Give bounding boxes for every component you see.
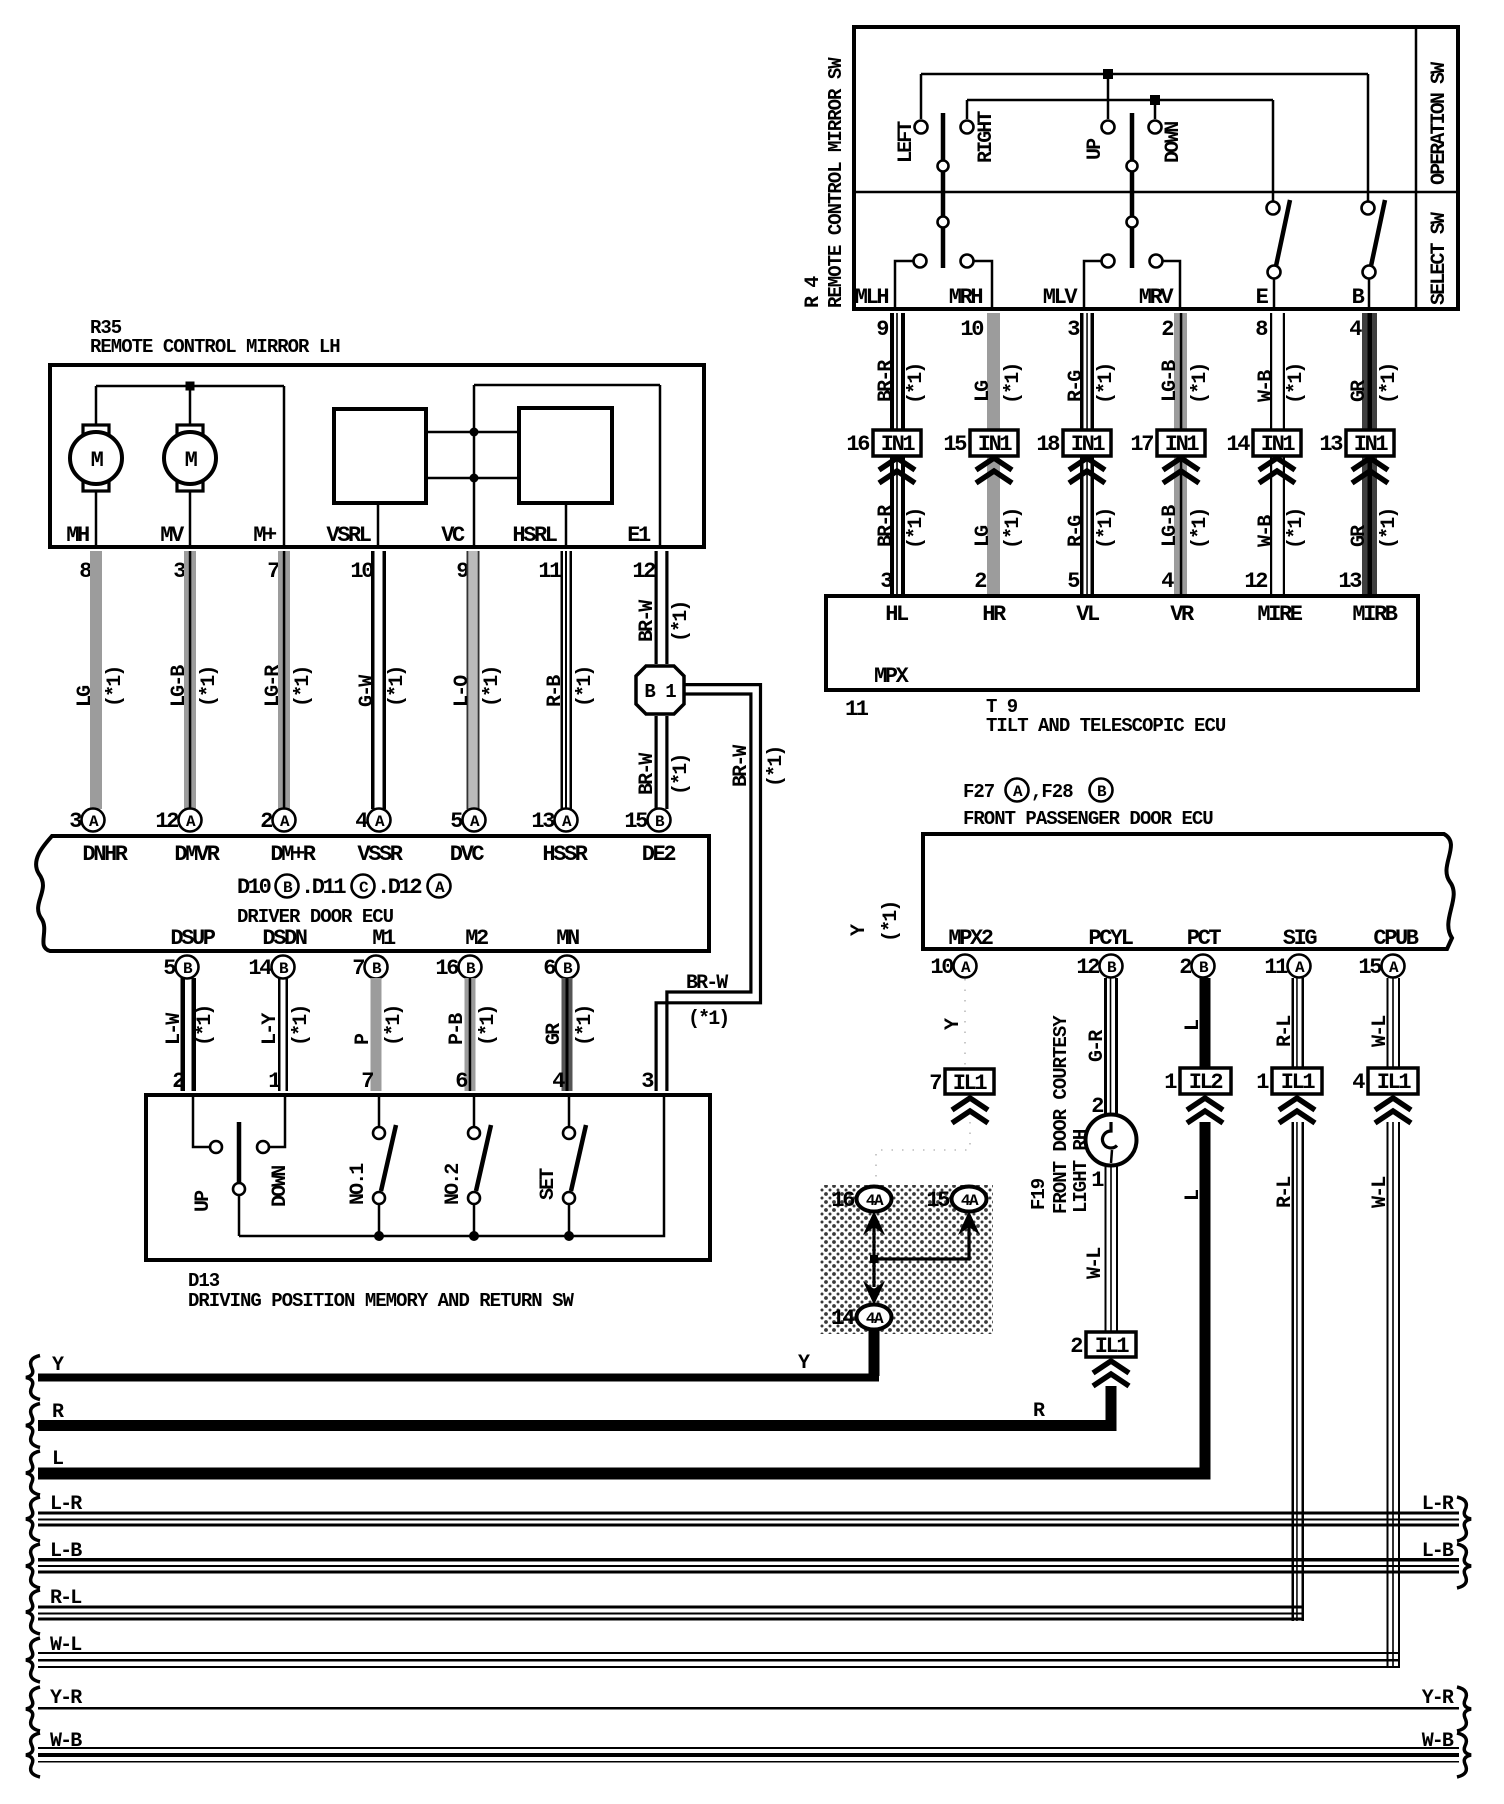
- svg-text:MRH: MRH: [949, 285, 983, 310]
- wire Y IL1 to 16(4A) (faint): [876, 1122, 970, 1184]
- svg-text:LEFT: LEFT: [895, 121, 918, 163]
- wire motor MV drop: [189, 386, 192, 426]
- svg-text:DOWN: DOWN: [1162, 122, 1185, 163]
- svg-text:14: 14: [831, 1306, 855, 1331]
- svg-text:(*1): (*1): [1095, 364, 1118, 404]
- contact MRH: [961, 255, 974, 268]
- svg-text:W-L: W-L: [1369, 1177, 1392, 1208]
- svg-text:GR: GR: [1348, 525, 1371, 547]
- remote control mirror switch R4 box: [854, 27, 1458, 309]
- wire bus line1: [921, 73, 1368, 76]
- bus L: [26, 1451, 40, 1495]
- svg-text:SELECT SW: SELECT SW: [1428, 212, 1451, 305]
- wire VC riser: [473, 385, 476, 478]
- svg-text:MIRB: MIRB: [1352, 602, 1397, 627]
- svg-text:HSSR: HSSR: [542, 842, 588, 867]
- svg-text:MPX: MPX: [874, 664, 910, 689]
- svg-text:R-L: R-L: [1274, 1177, 1297, 1208]
- tilt and telescopic ECU T9 box: [826, 596, 1418, 690]
- wire VC drop: [473, 478, 476, 545]
- svg-text:4A: 4A: [866, 1192, 884, 1210]
- motor M vertical: [177, 425, 203, 435]
- svg-text:(*1): (*1): [1189, 509, 1212, 549]
- wire DOWN stub: [1154, 100, 1157, 119]
- svg-text:NO.2: NO.2: [442, 1164, 465, 1205]
- wire common bus: [239, 1095, 664, 1236]
- svg-text:W-B: W-B: [1255, 370, 1278, 402]
- wire sensor link lower: [428, 477, 517, 480]
- connector 15(B) DE2: [648, 809, 671, 832]
- wire R-G MLV pin3 to IN1 to MPX VL: [1080, 313, 1084, 594]
- svg-text:LG-R: LG-R: [262, 665, 285, 707]
- svg-text:(*1): (*1): [1285, 364, 1308, 404]
- connector 5(A) DVC: [463, 809, 486, 832]
- svg-text:R-L: R-L: [1274, 1016, 1297, 1047]
- wire GR B pin4 to IN1 to MPX MIRB: [1362, 313, 1377, 594]
- switch arm horizontal mirror select: [941, 113, 946, 268]
- svg-text:LG: LG: [972, 380, 995, 402]
- arrow into 14(4A): [863, 1281, 885, 1305]
- node junction line2/DOWN: [1150, 95, 1160, 105]
- bus R: [26, 1404, 40, 1448]
- svg-text:(*1): (*1): [1189, 364, 1212, 404]
- switch E lower contact: [1268, 266, 1281, 279]
- svg-text:HL: HL: [885, 602, 909, 627]
- svg-text:LG: LG: [74, 685, 97, 707]
- svg-text:(*1): (*1): [1378, 364, 1401, 404]
- switch B upper contact: [1362, 202, 1375, 215]
- svg-text:D10: D10: [237, 875, 271, 900]
- svg-text:(*1): (*1): [290, 1006, 313, 1046]
- svg-text:MH: MH: [66, 523, 89, 548]
- svg-text:2: 2: [1070, 1334, 1082, 1359]
- svg-text:.D12: .D12: [377, 875, 421, 900]
- svg-text:(*1): (*1): [688, 1008, 728, 1031]
- svg-text:IL2: IL2: [1189, 1070, 1223, 1095]
- svg-text:E1: E1: [627, 523, 651, 548]
- svg-text:(*1): (*1): [477, 1006, 500, 1046]
- connector 12(B) PCYL: [1100, 955, 1123, 978]
- wire R riser to IL1: [1106, 1386, 1117, 1431]
- wire G-W VSRL pin10 to ECU VSSR: [371, 551, 375, 809]
- wire BR-W E1 pin12 to B1: [655, 551, 658, 664]
- svg-text:4A: 4A: [961, 1192, 979, 1210]
- svg-text:IL1: IL1: [1377, 1070, 1412, 1095]
- wire R-L IL1 to R-L bus: [1292, 1122, 1295, 1621]
- svg-text:M1: M1: [372, 926, 396, 951]
- wire 16(4A) to junction: [872, 1222, 875, 1260]
- connector 5(B) DSUP: [176, 956, 199, 979]
- svg-text:W-L: W-L: [1369, 1016, 1392, 1047]
- switch SET: [568, 1095, 571, 1127]
- svg-text:OPERATION SW: OPERATION SW: [1428, 62, 1451, 185]
- connector 15(A) CPUB: [1382, 955, 1405, 978]
- wire MLH stub: [895, 261, 913, 309]
- svg-text:(*1): (*1): [1285, 509, 1308, 549]
- svg-text:W-B: W-B: [1422, 1730, 1454, 1753]
- svg-text:L-Y: L-Y: [259, 1013, 282, 1045]
- svg-text:DVC: DVC: [450, 842, 485, 867]
- svg-text:VL: VL: [1076, 602, 1100, 627]
- svg-text:BR-R: BR-R: [875, 360, 898, 402]
- node junction VC lower: [470, 474, 479, 483]
- svg-text:16: 16: [831, 1188, 854, 1213]
- connector IN1 pin15: [970, 430, 1018, 456]
- svg-text:(*1): (*1): [905, 364, 928, 404]
- wire B stub: [1368, 278, 1371, 309]
- svg-text:14: 14: [1226, 432, 1250, 457]
- svg-text:(*1): (*1): [1378, 509, 1401, 549]
- wire motor supply top: [96, 385, 284, 388]
- svg-text:(*1): (*1): [292, 667, 315, 707]
- svg-text:PCT: PCT: [1187, 926, 1222, 951]
- svg-text:MPX2: MPX2: [948, 926, 992, 951]
- svg-text:IL1: IL1: [953, 1071, 988, 1096]
- wire E riser: [1272, 100, 1275, 201]
- svg-text:BR-W: BR-W: [636, 753, 659, 795]
- svg-text:UP: UP: [1084, 138, 1107, 160]
- svg-text:DOWN: DOWN: [269, 1166, 292, 1207]
- wire sensor link upper: [428, 431, 517, 434]
- svg-text:(*1): (*1): [1002, 509, 1025, 549]
- svg-text:GR: GR: [543, 1023, 566, 1045]
- connector 12(A) DMVR: [179, 809, 202, 832]
- node junction line1/UP: [1103, 69, 1113, 79]
- wire R-L SIG to IL1: [1292, 978, 1295, 1068]
- wire LEFT stub: [920, 74, 923, 119]
- svg-text:L: L: [1182, 1190, 1205, 1201]
- svg-text:HSRL: HSRL: [512, 523, 557, 548]
- svg-text:IN1: IN1: [978, 432, 1013, 457]
- bus Y: [26, 1356, 40, 1400]
- wire UP stub: [1107, 74, 1110, 119]
- wire W-L IL1 to W-L bus: [1387, 1122, 1389, 1668]
- connector 4(A) VSSR: [368, 809, 391, 832]
- svg-text:,F28: ,F28: [1031, 781, 1073, 803]
- svg-text:UP: UP: [192, 1190, 215, 1212]
- wire MRV stub: [1163, 261, 1180, 309]
- contact UP: [1102, 121, 1115, 134]
- wire HSRL drop: [565, 505, 568, 545]
- wire MLV stub: [1084, 261, 1101, 309]
- connector oval 16(4A): [857, 1187, 892, 1212]
- svg-text:(*1): (*1): [880, 902, 903, 942]
- svg-text:LG-B: LG-B: [1159, 360, 1182, 402]
- contact DOWN fixed: [257, 1141, 269, 1153]
- wire motor MH drop: [95, 386, 98, 426]
- R4 column divider: [1415, 27, 1418, 309]
- svg-text:(*1): (*1): [198, 667, 221, 707]
- switch E upper contact: [1267, 202, 1280, 215]
- svg-text:IN1: IN1: [881, 432, 916, 457]
- svg-text:7: 7: [267, 559, 279, 584]
- wire W-L courtesy light to IL1: [1105, 1166, 1107, 1332]
- svg-text:12: 12: [1076, 955, 1099, 980]
- wire L PCT to IL2: [1200, 978, 1211, 1068]
- connector IN1 pin14: [1253, 430, 1301, 456]
- switch NO.2: [473, 1095, 476, 1127]
- svg-text:(*1): (*1): [386, 667, 409, 707]
- wire BR-W B1 jog to D13 pin3 inner: [667, 694, 751, 1091]
- contact RIGHT: [961, 121, 974, 134]
- svg-text:(*1): (*1): [104, 667, 127, 707]
- driving position memory and return switch D13 box: [146, 1095, 710, 1260]
- svg-text:11: 11: [845, 697, 869, 722]
- svg-text:MRV: MRV: [1139, 285, 1175, 310]
- svg-text:BR-W: BR-W: [686, 972, 728, 995]
- svg-text:12: 12: [155, 809, 178, 834]
- svg-text:D13: D13: [188, 1270, 220, 1292]
- connector 7(B) M1: [365, 956, 388, 979]
- svg-text:10: 10: [960, 317, 983, 342]
- connector IL1 pin1: [1272, 1068, 1322, 1094]
- connector IN1 pin18: [1063, 430, 1111, 456]
- bus Y-R: [26, 1687, 40, 1731]
- wire MV drop to box bottom: [189, 491, 192, 545]
- node junction VC upper: [470, 428, 479, 437]
- svg-text:(*1): (*1): [383, 1006, 406, 1046]
- svg-text:6: 6: [543, 956, 555, 981]
- svg-text:LG: LG: [972, 525, 995, 547]
- svg-text:Y-R: Y-R: [50, 1687, 82, 1710]
- wire junction to 14(4A): [872, 1259, 875, 1287]
- svg-text:2: 2: [1161, 317, 1173, 342]
- svg-text:18: 18: [1036, 432, 1060, 457]
- svg-text:L-R: L-R: [1422, 1493, 1454, 1516]
- svg-text:DE2: DE2: [642, 842, 676, 867]
- wire W-L CPUB to IL1: [1387, 978, 1389, 1068]
- svg-text:CPUB: CPUB: [1373, 926, 1418, 951]
- contact LEFT: [915, 121, 928, 134]
- svg-text:W-L: W-L: [1084, 1248, 1107, 1279]
- wire bus line2: [967, 99, 1273, 102]
- svg-text:2: 2: [974, 569, 986, 594]
- connector 6(B) MN: [556, 956, 579, 979]
- svg-text:4A: 4A: [866, 1310, 884, 1328]
- connector IL1 pin4: [1368, 1068, 1418, 1094]
- node NO.1 bus junction: [374, 1231, 384, 1241]
- wire pin2 to UP contact: [193, 1095, 209, 1147]
- wire pole to bus: [238, 1195, 241, 1236]
- svg-text:(*1): (*1): [574, 667, 597, 707]
- svg-text:MLH: MLH: [855, 285, 889, 310]
- wire Y thick 14(4A) to Y bus: [869, 1330, 880, 1376]
- svg-text:VSSR: VSSR: [357, 842, 403, 867]
- svg-text:IN1: IN1: [1261, 432, 1296, 457]
- svg-text:(*1): (*1): [1002, 364, 1025, 404]
- svg-text:VC: VC: [441, 523, 465, 548]
- connector 2(B) PCT: [1192, 955, 1215, 978]
- svg-text:MN: MN: [556, 926, 579, 951]
- svg-text:LIGHT RH: LIGHT RH: [1070, 1129, 1092, 1213]
- svg-text:NO.1: NO.1: [347, 1163, 370, 1205]
- svg-text:P-B: P-B: [446, 1013, 469, 1045]
- svg-text:12: 12: [632, 559, 655, 584]
- svg-text:L: L: [1182, 1020, 1205, 1031]
- svg-text:16: 16: [846, 432, 869, 457]
- wire GR MN to D13 pin4: [562, 978, 573, 1091]
- svg-text:FRONT DOOR COURTESY: FRONT DOOR COURTESY: [1050, 1015, 1072, 1214]
- svg-text:15: 15: [926, 1188, 950, 1213]
- switch arm vertical mirror select: [1130, 113, 1135, 268]
- svg-text:MV: MV: [160, 523, 185, 548]
- svg-text:VR: VR: [1170, 602, 1195, 627]
- svg-text:R-G: R-G: [1065, 370, 1088, 402]
- svg-text:R-B: R-B: [544, 675, 567, 707]
- connector oval 15(4A): [952, 1187, 987, 1212]
- svg-text:HR: HR: [982, 602, 1007, 627]
- wire MRH stub: [974, 261, 992, 309]
- svg-text:F19: F19: [1028, 1178, 1050, 1210]
- wire Y MPX2 to IL1 (faint): [964, 979, 966, 1066]
- wire VSRL drop: [377, 505, 380, 545]
- contact UP fixed: [210, 1141, 222, 1153]
- wire M+ drop: [283, 386, 286, 545]
- node junction M+: [186, 382, 195, 391]
- connector 13(A) HSSR: [555, 809, 578, 832]
- svg-text:IN1: IN1: [1071, 432, 1106, 457]
- svg-text:IL1: IL1: [1281, 1070, 1316, 1095]
- svg-text:F27: F27: [963, 781, 995, 803]
- connector 11(A) SIG: [1288, 955, 1311, 978]
- wire L-O VC pin9 to ECU DVC: [467, 551, 479, 809]
- bus L-B: [26, 1544, 40, 1588]
- svg-text:DMVR: DMVR: [174, 842, 220, 867]
- connector 2(A) DM+R: [273, 809, 296, 832]
- svg-text:2: 2: [260, 809, 272, 834]
- svg-text:LG-B: LG-B: [1159, 505, 1182, 547]
- shaded junction block 4A: [820, 1185, 993, 1334]
- svg-text:TILT AND TELESCOPIC ECU: TILT AND TELESCOPIC ECU: [986, 715, 1226, 737]
- wire P M1 to D13 pin7: [371, 978, 382, 1091]
- svg-text:W-B: W-B: [50, 1730, 82, 1753]
- bus L-R: [26, 1497, 40, 1541]
- contact MLH: [914, 255, 927, 268]
- svg-text:L-B: L-B: [1422, 1540, 1454, 1563]
- svg-text:(*1): (*1): [905, 509, 928, 549]
- svg-text:13: 13: [1338, 569, 1362, 594]
- svg-text:13: 13: [1319, 432, 1343, 457]
- driver door ECU box with torn left edge: [36, 836, 709, 951]
- svg-text:IN1: IN1: [1165, 432, 1200, 457]
- wire BR-R MLH pin9 to IN1 to MPX HL: [890, 313, 894, 594]
- wire L-W DSUP to D13 pin2: [181, 978, 186, 1091]
- svg-text:L-W: L-W: [163, 1013, 186, 1045]
- svg-text:(*1): (*1): [765, 747, 788, 787]
- splice connector B1 octagon: [636, 666, 684, 714]
- svg-text:W-B: W-B: [1255, 515, 1278, 547]
- wire pin1 to DOWN contact: [270, 1095, 285, 1147]
- svg-text:(*1): (*1): [1095, 509, 1118, 549]
- svg-text:9: 9: [876, 317, 888, 342]
- wire LG-B MV pin3 to ECU DMVR: [184, 551, 196, 809]
- switch B arm: [1371, 200, 1385, 266]
- wire P-B M2 to D13 pin6: [465, 978, 476, 1091]
- contact MRV: [1150, 255, 1163, 268]
- svg-text:7: 7: [929, 1071, 941, 1096]
- svg-text:B 1: B 1: [644, 681, 676, 703]
- remote control mirror LH R35 box: [50, 365, 704, 547]
- svg-text:VSRL: VSRL: [326, 523, 371, 548]
- wire LG MH pin8 to ECU DNHR: [90, 551, 102, 809]
- bus W-L: [26, 1638, 40, 1682]
- svg-text:Y-R: Y-R: [1422, 1687, 1454, 1710]
- wire BR-W B1 to ECU DE2: [655, 716, 658, 809]
- wire LG-B MRV pin2 to IN1 to MPX VR: [1174, 313, 1187, 594]
- node junction 4A block: [870, 1255, 878, 1263]
- motor M horizontal: [83, 425, 109, 435]
- wire B riser: [1367, 74, 1370, 201]
- svg-text:BR-W: BR-W: [730, 745, 753, 787]
- svg-text:G-W: G-W: [356, 675, 379, 707]
- svg-text:IN1: IN1: [1354, 432, 1389, 457]
- svg-text:LG-B: LG-B: [168, 665, 191, 707]
- switch arm UP/DOWN pole: [237, 1122, 242, 1184]
- svg-text:GR: GR: [1348, 380, 1371, 402]
- wire junction to 15(4A): [872, 1257, 970, 1260]
- svg-text:15: 15: [624, 809, 648, 834]
- svg-text:12: 12: [1244, 569, 1267, 594]
- wire E1 top link: [474, 384, 660, 387]
- contact DOWN: [1149, 121, 1162, 134]
- svg-text:DSDN: DSDN: [262, 926, 306, 951]
- svg-text:REMOTE CONTROL MIRROR LH: REMOTE CONTROL MIRROR LH: [90, 336, 340, 358]
- wire LG MRH pin10 to IN1 to MPX HR: [987, 313, 1000, 594]
- svg-text:MIRE: MIRE: [1257, 602, 1302, 627]
- switch B lower contact: [1363, 266, 1376, 279]
- svg-text:M+: M+: [253, 523, 277, 548]
- connector 3(A) DNHR: [82, 809, 105, 832]
- svg-text:7: 7: [361, 1069, 373, 1094]
- wire R-B HSRL pin11 to ECU HSSR: [561, 551, 564, 809]
- node SET bus junction: [564, 1231, 574, 1241]
- svg-text:BR-R: BR-R: [875, 505, 898, 547]
- svg-text:RIGHT: RIGHT: [975, 111, 998, 163]
- svg-text:SET: SET: [537, 1168, 560, 1200]
- svg-text:FRONT PASSENGER DOOR ECU: FRONT PASSENGER DOOR ECU: [963, 808, 1213, 830]
- svg-text:(*1): (*1): [194, 1006, 217, 1046]
- svg-text:2: 2: [172, 1069, 184, 1094]
- wire L-Y DSDN to D13 pin1: [278, 978, 281, 1091]
- svg-text:(*1): (*1): [670, 755, 693, 795]
- connector IL1 pin2: [1086, 1332, 1136, 1357]
- lamp F19 front door courtesy light RH: [1086, 1115, 1137, 1166]
- svg-text:DM+R: DM+R: [270, 842, 316, 867]
- wire W-B E pin8 to IN1 to MPX MIRE: [1270, 313, 1272, 594]
- wire E stub: [1273, 278, 1276, 309]
- svg-text:M2: M2: [465, 926, 488, 951]
- wire RIGHT stub: [966, 100, 969, 119]
- svg-text:DRIVING POSITION MEMORY AND RE: DRIVING POSITION MEMORY AND RETURN SW: [188, 1290, 574, 1312]
- svg-text:9: 9: [456, 559, 468, 584]
- svg-text:DRIVER DOOR ECU: DRIVER DOOR ECU: [237, 906, 394, 928]
- connector oval 14(4A): [857, 1305, 892, 1330]
- svg-text:DNHR: DNHR: [82, 842, 128, 867]
- connector 14(B) DSDN: [272, 956, 295, 979]
- svg-text:R-G: R-G: [1065, 515, 1088, 547]
- contact MLV: [1102, 255, 1115, 268]
- R4 operation/select divider: [854, 191, 1458, 194]
- connector IL2 pin1: [1180, 1068, 1231, 1094]
- svg-text:IL1: IL1: [1095, 1334, 1130, 1359]
- wire E1 drop: [659, 385, 662, 545]
- svg-text:16: 16: [435, 956, 458, 981]
- svg-text:L-O: L-O: [451, 675, 474, 707]
- bus W-B: [26, 1733, 40, 1777]
- VSRL sensor box: [334, 409, 426, 503]
- svg-text:2: 2: [1179, 955, 1191, 980]
- svg-text:17: 17: [1130, 432, 1153, 457]
